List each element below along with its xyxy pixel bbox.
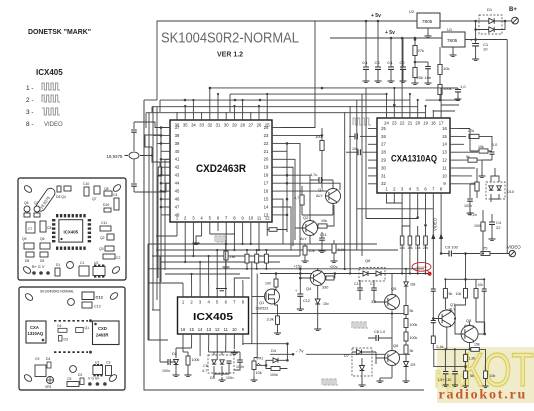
svg-text:D2: D2 [78,373,82,377]
svg-text:16: 16 [264,189,269,194]
resistor 2,4k [431,336,435,344]
svg-text:1,2k: 1,2k [469,357,476,361]
CXA bottom pin wires [387,200,403,203]
board1 D5 Q4 [57,186,61,192]
svg-text:100n: 100n [162,369,170,373]
board2 mounting holes [24,292,34,301]
right border wire [465,40,507,254]
svg-text:C1: C1 [80,261,84,265]
left frame inner wires [148,244,168,340]
CXD bottom pin wires [177,231,267,262]
svg-text:D1: D1 [56,263,60,267]
capacitor 1,5 [443,372,449,374]
svg-text:32: 32 [207,123,212,128]
svg-text:D3: D3 [64,338,68,342]
resistor 22k [424,236,428,245]
svg-text:ALY: ALY [300,237,307,241]
PCB board 1 outline [18,178,126,280]
svg-text:29: 29 [232,123,237,128]
svg-text:1310AQ: 1310AQ [28,331,44,336]
svg-text:radiokot.ru: radiokot.ru [439,388,528,403]
svg-text:VIDEO: VIDEO [507,245,521,250]
svg-text:2463R: 2463R [96,333,108,338]
svg-text:Q2: Q2 [303,215,309,220]
svg-text:Q6: Q6 [365,258,371,263]
svg-text:25: 25 [381,126,386,131]
capacitor C10 [452,372,458,374]
svg-text:17: 17 [264,181,269,186]
svg-text:5k: 5k [410,349,414,353]
transistor Q1 2SK523 [265,289,280,304]
svg-text:Q5: Q5 [22,237,27,241]
svg-text:15v: 15v [323,302,329,306]
svg-text:43: 43 [175,173,180,178]
svg-text:C3: C3 [374,60,380,65]
svg-text:12: 12 [215,327,220,332]
resistor 10k fb2 [474,289,478,299]
svg-text:2 -: 2 - [26,97,34,104]
resistor 10k below Q2 [303,246,307,255]
opto coupler Q6 dashed [359,268,385,282]
svg-text:VR1: VR1 [45,385,52,389]
pulse glyph pin6 [215,236,227,242]
svg-text:V G B+: V G B+ [88,377,100,381]
svg-text:18,9375: 18,9375 [107,154,123,159]
transistor Q4 [310,271,325,286]
bus right of CXD [286,143,288,232]
svg-text:D4: D4 [46,357,50,361]
svg-text:1M: 1M [230,254,236,259]
board1 C7 C8 [26,222,35,233]
resistor 1,2k [464,355,468,362]
svg-text:Q3: Q3 [318,187,324,192]
svg-text:5k: 5k [470,374,474,378]
ground bar above ICX405 [216,289,227,291]
junctions below CXD [184,255,186,257]
svg-text:D9: D9 [40,259,44,263]
resistor 3,9k [332,244,336,253]
svg-text:B+: B+ [509,7,517,13]
svg-text:10k: 10k [456,292,462,296]
diode D9 [404,362,409,367]
resistor 247 [245,254,249,263]
resistor 100 mid [321,128,323,140]
svg-text:100: 100 [265,282,271,286]
svg-text:D10: D10 [507,190,514,194]
svg-text:20k: 20k [417,75,423,80]
svg-text:15: 15 [189,327,194,332]
svg-text:11: 11 [257,216,262,221]
svg-text:C3: C3 [106,361,110,365]
svg-text:C4: C4 [113,193,117,197]
wire 433 to 465 low [434,349,466,366]
svg-text:D1: D1 [487,7,493,12]
cap 100n right icx [237,360,243,362]
svg-text:27: 27 [248,123,253,128]
svg-text:23: 23 [264,133,269,138]
svg-text:VER 1.2: VER 1.2 [217,52,243,59]
svg-text:CXD2463R: CXD2463R [196,163,246,175]
IC U? CXD2463R [161,112,281,231]
svg-text:24: 24 [264,125,269,130]
svg-text:Q1: Q1 [259,300,264,305]
svg-text:17: 17 [439,121,444,126]
svg-text:Q3: Q3 [99,247,104,251]
svg-text:10k: 10k [321,219,327,223]
wires CXA right pins [459,129,478,184]
capacitor 10n [427,62,429,66]
svg-text:34: 34 [191,123,196,128]
svg-text:40: 40 [175,149,180,154]
svg-text:4,7: 4,7 [202,369,207,373]
svg-text:D10: D10 [103,203,109,207]
svg-text:1,0: 1,0 [492,143,497,147]
svg-text:1,0: 1,0 [460,84,466,89]
svg-text:13: 13 [206,327,211,332]
board2 IC CXD2463R [93,321,120,345]
resistor 20k [414,62,416,67]
svg-text:12: 12 [442,158,447,163]
svg-text:D8: D8 [411,283,416,287]
wire pin7 column down [432,209,434,289]
svg-text:Q6: Q6 [24,201,29,205]
schematic frame [157,21,436,100]
svg-text:+ 5v: + 5v [385,30,395,36]
resistor 10k low [484,371,488,379]
LED block D10 [486,182,505,199]
svg-text:10: 10 [442,173,447,178]
svg-text:14: 14 [198,327,203,332]
svg-text:U1: U1 [95,361,99,365]
wires CXD right pins [281,21,340,256]
resistor 16k [400,236,404,245]
svg-text:31: 31 [216,123,221,128]
svg-text:10k: 10k [256,371,262,375]
resistor 5k q5 [404,306,408,315]
wire to VR1 [252,344,287,361]
svg-text:C9 100: C9 100 [445,245,459,250]
svg-text:D9: D9 [411,363,416,367]
svg-text:1 -: 1 - [26,85,34,92]
cap 100n right [469,184,471,198]
svg-text:31: 31 [381,173,386,178]
svg-text:C12: C12 [96,295,104,300]
svg-text:22: 22 [400,121,405,126]
junction dots CXA risers [385,93,387,95]
resistor 100k icx [186,356,190,365]
svg-text:+20v: +20v [329,264,338,269]
svg-text:Q8: Q8 [466,318,472,323]
svg-text:CXA: CXA [30,325,39,330]
svg-text:26: 26 [257,123,262,128]
horizontal bus lines mid [148,244,398,274]
svg-text:20: 20 [415,121,420,126]
svg-text:D3: D3 [210,376,215,380]
svg-text:15k: 15k [478,145,484,149]
svg-text:+ 5v: + 5v [371,13,381,19]
svg-text:11: 11 [224,327,229,332]
svg-text:2SK523: 2SK523 [256,307,269,311]
svg-text:U2: U2 [94,261,98,265]
svg-text:18: 18 [431,121,436,126]
svg-text:3 -: 3 - [26,109,34,116]
svg-text:19: 19 [423,121,428,126]
svg-text:100n: 100n [226,376,234,380]
svg-text:24: 24 [384,121,389,126]
resistor 16k [408,236,412,245]
video feedback vertical [465,254,467,280]
svg-text:28: 28 [381,150,386,155]
resistor 27k top [414,40,416,46]
svg-text:26: 26 [381,134,386,139]
vertical bus left of CXA [345,88,366,274]
svg-text:0,1: 0,1 [387,60,393,65]
svg-text:Q2: Q2 [100,236,105,240]
svg-text:100k: 100k [443,86,452,91]
crystal X1 18,9375 [129,152,139,159]
svg-text:39: 39 [175,141,180,146]
rail 268.8 [148,268,424,270]
capacitor C3 [377,21,379,67]
svg-text:1,5+ C10: 1,5+ C10 [438,378,452,382]
svg-text:C7: C7 [28,227,32,231]
svg-text:D7: D7 [344,354,349,358]
capacitor below crystal [133,159,135,183]
svg-text:Q6: Q6 [40,237,45,241]
board2 C12 C13 [82,292,94,300]
svg-text:SK1004S0R2-NORMAL: SK1004S0R2-NORMAL [40,290,74,294]
svg-text:45: 45 [175,189,180,194]
svg-text:44: 44 [175,181,180,186]
resistor 5k fb [443,289,447,299]
svg-text:U2: U2 [409,9,415,14]
bus wires above CXD2463R [146,88,441,113]
watermark KOT logo [435,343,534,396]
ground pin4 [196,236,202,240]
resistor 266.4 [264,254,268,263]
svg-text:22: 22 [264,141,269,146]
svg-text:ALY: ALY [316,194,323,198]
svg-text:46: 46 [175,197,180,202]
svg-text:14: 14 [264,204,269,209]
wire Q8 collector up [484,322,486,334]
svg-text:27k: 27k [418,48,424,53]
board1 crystal 18.9375 [34,186,56,212]
svg-text:18: 18 [264,173,269,178]
svg-text:42: 42 [175,165,180,170]
svg-text:10k: 10k [490,374,496,378]
svg-text:21: 21 [408,121,413,126]
resistor 15k [416,236,420,245]
resistor 3,9k q1 [276,316,280,325]
+5v rail top [436,20,483,22]
resistor 10k fb [464,289,468,299]
svg-text:32: 32 [381,181,386,186]
CXA top pin wires [387,38,460,111]
feedback line [445,278,484,280]
svg-text:CXD: CXD [98,326,107,331]
svg-text:Q7: Q7 [450,302,456,307]
cap to CXA pin 26 [360,135,368,137]
svg-text:10k: 10k [309,249,315,253]
svg-text:16: 16 [442,126,447,131]
svg-text:C11: C11 [320,233,327,237]
svg-text:D2: D2 [172,352,177,356]
svg-text:48: 48 [175,212,180,217]
video output line [452,253,480,255]
svg-text:ICX405: ICX405 [36,68,63,77]
svg-text:35: 35 [183,123,188,128]
capacitor C2 [402,38,404,67]
ground pin10 [231,350,238,355]
svg-text:23: 23 [392,121,397,126]
svg-text:10k: 10k [443,66,449,71]
svg-text:C6: C6 [57,324,61,328]
svg-text:ICX405: ICX405 [193,311,233,323]
svg-text:27: 27 [381,142,386,147]
resistor small right of CXD [269,228,277,232]
svg-text:C2: C2 [116,256,120,260]
svg-text:CXA1310AQ: CXA1310AQ [391,154,437,164]
pulse glyph bottom left [322,379,338,385]
board2 hole [68,299,75,306]
svg-text:10k: 10k [478,283,484,287]
PCB board 2 outline [19,287,125,390]
svg-text:41: 41 [175,157,180,162]
svg-text:B+ G V: B+ G V [32,265,45,269]
board2 IC CXA1310AQ [26,321,46,343]
svg-text:330: 330 [322,286,328,290]
resistor 100k q5 [404,319,408,328]
svg-text:C6: C6 [203,364,208,368]
svg-text:75: 75 [483,246,488,251]
pulse glyph mid [352,322,368,328]
bottom rail y=349.4 [433,348,484,350]
resistor 256.7 [255,254,259,263]
C12 vertical [299,269,301,294]
svg-text:- 7v: - 7v [296,349,304,354]
svg-text:U1: U1 [447,27,453,32]
IC ICX405 [178,283,249,345]
vertical feeds right of ICX [252,262,257,358]
IC U? CXA1310AQ [368,110,459,200]
svg-text:D4: D4 [271,349,276,353]
svg-text:30: 30 [381,165,386,170]
svg-text:13: 13 [442,150,447,155]
svg-text:D5 Q4: D5 Q4 [56,195,66,199]
board2 VR1 [47,377,54,384]
svg-text:100k: 100k [270,373,278,377]
svg-text:33: 33 [199,123,204,128]
board1 mounting holes [23,184,33,193]
svg-text:C9: C9 [35,357,39,361]
resistor 10k [439,47,441,64]
svg-text:Q1: Q1 [85,326,90,330]
junction dots CXD left pins [160,126,163,129]
svg-text:37: 37 [175,125,180,130]
svg-text:SK1004S0R2-NORMAL: SK1004S0R2-NORMAL [161,31,299,47]
board2 hole2 [70,366,77,373]
long rail 313.6 [252,313,406,315]
board2 dashed pad rows [54,321,88,352]
wires into ICX405 top [148,244,250,283]
CXD top pin risers [177,88,267,112]
svg-text:Q7: Q7 [34,201,39,205]
resistor 5k low [464,371,468,379]
svg-text:5k: 5k [410,309,414,313]
svg-text:100k: 100k [410,336,418,340]
svg-text:C8 1,0: C8 1,0 [374,330,385,334]
svg-text:VIDEO: VIDEO [44,122,63,128]
svg-text:29: 29 [381,158,386,163]
pulse glyph near CXA pin 25 [353,118,371,125]
svg-text:7805: 7805 [447,38,458,43]
svg-text:20: 20 [264,157,269,162]
watermark background [437,347,534,403]
svg-text:22: 22 [496,225,501,230]
svg-text:C5: C5 [67,377,71,381]
svg-text:7805: 7805 [422,19,433,24]
bus junction dots [184,99,187,102]
svg-text:3,9k: 3,9k [338,248,345,252]
svg-text:3,9k: 3,9k [267,318,274,322]
zener 15v [315,299,320,304]
board1 hole center [67,262,74,269]
svg-text:C10: C10 [83,182,89,186]
svg-text:Q4: Q4 [306,286,312,291]
svg-text:0,1: 0,1 [362,60,368,65]
left bus wires [144,100,161,390]
svg-text:15: 15 [264,197,269,202]
svg-text:C13: C13 [94,305,101,309]
svg-text:C8: C8 [47,226,51,230]
resistor 5k q5b [404,345,408,354]
svg-text:15k: 15k [474,343,480,347]
svg-text:47: 47 [175,204,180,209]
cap 100n icx [168,359,170,365]
svg-text:10: 10 [248,216,253,221]
svg-text:ICX405: ICX405 [63,230,78,235]
signal arrows [433,200,441,254]
svg-text:2,4k: 2,4k [436,345,443,349]
svg-text:Q6: Q6 [393,343,399,348]
resistor 100k q5b [404,332,408,341]
bus to Q network line [260,273,430,275]
svg-text:16: 16 [181,327,186,332]
svg-text:100k: 100k [410,323,418,327]
capacitor C1 10 [474,38,477,41]
svg-text:C12: C12 [303,299,310,303]
svg-text:14: 14 [442,142,447,147]
ICX405 bottom wires [183,344,252,360]
svg-text:13: 13 [264,212,269,217]
capacitor above crystal [133,122,135,129]
svg-text:C11: C11 [101,221,107,225]
svg-text:4,7u: 4,7u [310,173,317,177]
svg-text:19: 19 [264,165,269,170]
svg-text:21: 21 [264,149,269,154]
resistor 1M [224,251,228,260]
junction dots ICX risers [190,273,192,275]
svg-text:38: 38 [175,133,180,138]
svg-text:28: 28 [240,123,245,128]
svg-text:+2,2v: +2,2v [467,212,477,217]
svg-text:Q8: Q8 [104,187,109,191]
svg-text:5k: 5k [449,292,453,296]
diode block D7 [352,348,372,376]
red annotation ellipse [412,262,431,271]
capacitor 1,0 [440,88,458,89]
